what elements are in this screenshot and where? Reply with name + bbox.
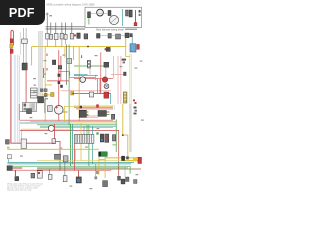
lamp yellow Y2 <box>71 92 74 96</box>
connector row J4 <box>97 34 101 39</box>
label m3 <box>33 92 36 93</box>
terminal T10 <box>123 61 125 63</box>
ladder rung c <box>31 94 38 96</box>
wire lightblue cross <box>74 105 114 107</box>
solenoid blue S1 <box>130 44 136 52</box>
loom wire c <box>40 31 42 103</box>
wire stub s4 <box>65 39 67 44</box>
connector comb r1 <box>111 114 114 119</box>
tail lamp red <box>138 157 142 163</box>
sidelamp SL1 <box>7 155 11 159</box>
fusebox terminal a <box>24 104 27 107</box>
horn H2 red <box>102 77 108 83</box>
terminal red Ta <box>133 99 135 101</box>
stub teal comb2 <box>92 126 94 134</box>
wire red down b <box>73 143 75 171</box>
fuse F5 <box>64 34 67 39</box>
wire dark rear drop <box>95 164 97 176</box>
wire teal cross low <box>74 107 113 109</box>
ignition switch S5 <box>79 110 86 117</box>
horn H1 <box>80 77 86 83</box>
wire teal center h <box>59 71 70 73</box>
relay K3 <box>104 62 109 67</box>
column connector d <box>44 89 47 92</box>
flasher U1 contact b <box>88 64 91 67</box>
tick yellow bl <box>7 147 9 149</box>
terminal T9 <box>122 59 126 61</box>
flasher unit green <box>99 152 108 157</box>
label m4 <box>44 60 47 61</box>
wire grey pale right <box>19 56 21 143</box>
comb bl <box>31 173 35 178</box>
exhaust sensor mark <box>96 171 99 174</box>
ladder rung a <box>31 89 38 91</box>
label m8 <box>120 66 123 67</box>
wire teal inset <box>122 9 124 26</box>
wire teal rear drop <box>92 144 94 164</box>
stub teal comb <box>83 126 85 134</box>
wire teal stub blue <box>131 35 133 44</box>
motor X mark a <box>105 85 108 88</box>
wire yellow center long <box>78 47 80 121</box>
wire teal drop <box>110 93 112 104</box>
connector J2 <box>126 10 129 16</box>
wire red center a <box>58 50 60 121</box>
connector C4 <box>89 92 93 97</box>
wire dark center v <box>66 45 68 86</box>
stabilizer rung a <box>124 94 127 96</box>
fuse F4 <box>60 33 64 39</box>
wire pink r h <box>111 74 126 76</box>
inset box frame <box>85 7 142 27</box>
wire red inset <box>135 10 137 26</box>
connector row J6 <box>116 34 121 39</box>
wire teal stub v <box>95 75 97 80</box>
lamp cluster bl <box>37 171 42 178</box>
wire red stub box <box>19 111 26 113</box>
loom wire d <box>41 31 43 103</box>
ignition coil C <box>88 12 91 18</box>
relay K1 <box>77 33 80 38</box>
connector left J8 <box>22 39 28 43</box>
label m13 <box>97 128 100 129</box>
connector C2 <box>52 60 55 65</box>
wire red long h <box>74 78 113 80</box>
wire yellow fl a <box>98 157 100 175</box>
wire yellow mid h <box>45 84 52 86</box>
wire grey rear v <box>124 167 126 177</box>
rear cluster a <box>118 176 121 180</box>
wire dark mid h <box>74 75 98 77</box>
control box CB1 <box>27 109 32 114</box>
comb teeth <box>76 135 91 144</box>
wire drop d2 <box>49 169 51 174</box>
lamp yellow Y1 <box>51 93 54 97</box>
wire yellow mid v <box>44 47 46 121</box>
distributor D1 <box>97 9 104 16</box>
dynamo red tick b <box>56 106 58 109</box>
flasher cap <box>99 152 101 157</box>
fusebox hatch <box>30 103 35 111</box>
junction blob J9 <box>58 74 61 77</box>
wire yellow right v <box>122 104 124 135</box>
tick red bl2 <box>38 172 40 174</box>
wire band red 2 <box>20 129 119 131</box>
wire darkgreen rear <box>37 167 128 169</box>
lamp small rear <box>95 176 98 179</box>
wire green loop h2 <box>112 144 116 146</box>
regulator R1 <box>48 106 53 112</box>
wire red stub ra <box>97 79 99 94</box>
wire grey link row <box>100 35 125 37</box>
starter red S2 <box>137 44 140 49</box>
wire band yellow 2 <box>22 128 74 130</box>
wire green mid b <box>69 76 95 78</box>
wire red band leg <box>18 104 20 120</box>
connector C3 <box>58 66 62 69</box>
label m19 <box>110 169 113 170</box>
node yellow junction <box>122 134 124 136</box>
wire yellow wrap <box>126 47 130 57</box>
switch S4 <box>67 59 72 64</box>
inset link wire <box>91 13 108 15</box>
top bus wire B <box>46 28 86 30</box>
ladder rung b <box>31 92 38 94</box>
wire green loop h1 <box>112 136 116 138</box>
wire yellow mid leg <box>64 106 66 121</box>
connector C5 <box>52 139 56 144</box>
label m20 <box>136 174 139 175</box>
lamp cluster red a <box>10 39 13 43</box>
wire pink h <box>61 90 111 92</box>
wire red short h <box>47 80 69 82</box>
wire drop f2 <box>50 23 52 37</box>
reverse lamp RV <box>76 177 81 183</box>
connector J3 <box>129 10 132 17</box>
wire red lower v <box>54 124 56 141</box>
wire lightblue band a <box>13 55 15 143</box>
wire drop f6 <box>71 23 73 36</box>
wire pink r1 <box>112 56 114 78</box>
top bus wire A <box>46 26 86 28</box>
rear yellow joint <box>133 157 137 161</box>
junction blob J10 <box>58 81 61 84</box>
lamp cluster yellow <box>10 44 13 48</box>
S6 stub red <box>106 111 109 113</box>
wire band yellow 1 <box>30 121 116 123</box>
wire grey left pair a <box>23 28 25 63</box>
rear dark connector <box>121 156 125 161</box>
motor X mark b <box>105 85 108 88</box>
wire drop f3 <box>55 23 57 36</box>
wire lightblue band b <box>15 55 17 143</box>
instrument connector comb <box>74 135 94 144</box>
connector dark above blue <box>130 34 133 37</box>
rear cluster c <box>126 177 130 182</box>
wire teal rear b <box>7 163 131 165</box>
wire teal rear a <box>7 161 134 163</box>
clock G2 <box>48 125 54 131</box>
wire drop f1 <box>46 13 48 36</box>
wiper motor W1 <box>100 134 104 142</box>
column connector c <box>40 89 43 92</box>
wire yellow fl b <box>104 157 106 178</box>
wire yellow short h <box>42 94 52 96</box>
label m5 <box>44 74 47 75</box>
comp below yellow red tick <box>105 48 107 50</box>
wire dark ign drop <box>44 99 46 113</box>
stabilizer rung b <box>124 97 127 99</box>
wire red stub rb <box>99 79 101 94</box>
column connector f <box>44 94 47 97</box>
wire green rear drop <box>88 144 90 167</box>
wire yellow cross low <box>64 105 113 107</box>
red tick mid b <box>46 68 48 71</box>
wire grey right v2 <box>129 104 131 152</box>
terminal red Tb <box>135 102 137 104</box>
wire lightblue bend <box>113 106 115 111</box>
stub green comb <box>86 125 88 135</box>
inset caption right dash <box>125 29 137 30</box>
wire red lower bend <box>55 141 61 170</box>
ignition block label <box>45 98 48 99</box>
tick green dash <box>96 132 98 134</box>
connector C6 <box>21 139 26 148</box>
wire red rear <box>12 169 111 171</box>
terminal T8 <box>139 14 141 16</box>
wire yellow right step <box>123 135 128 158</box>
wire yellow left leg <box>21 129 23 143</box>
wire red right drop <box>118 130 120 176</box>
wire yellow bottom h <box>7 148 99 150</box>
svg-text:Main harness wiring detail: Main harness wiring detail <box>96 29 124 32</box>
wire grey stub relay <box>105 67 107 78</box>
fusebox FB1 <box>23 103 37 112</box>
rear cluster b <box>121 179 125 184</box>
wire drop d1 <box>64 162 66 176</box>
label m2 <box>34 85 37 86</box>
ignition switch block <box>38 97 44 103</box>
wire red mid-left <box>25 69 27 103</box>
label m9 <box>135 68 138 69</box>
wire red bottomleft h <box>11 142 55 144</box>
wire green coil <box>88 18 90 25</box>
wire paleyellow rear <box>37 160 134 162</box>
wire green center v <box>68 45 70 126</box>
junction comp cross <box>79 106 82 109</box>
wire green rear <box>7 165 130 167</box>
fuse F3 <box>54 33 58 39</box>
label t2 <box>49 15 52 16</box>
node N1 <box>74 34 76 36</box>
switch left S3 <box>22 63 27 70</box>
headlamp HL1 <box>7 166 12 171</box>
stabilizer rung c <box>124 100 127 102</box>
stub green comb2 <box>88 125 90 135</box>
W tick red <box>105 137 108 139</box>
S5 tick teal <box>87 114 89 116</box>
gauge G1 <box>109 15 118 24</box>
wire red dynamo right <box>63 111 68 113</box>
rear yellow wire upper <box>105 157 138 159</box>
wire red overlay <box>12 167 22 169</box>
connector row J7 <box>125 33 129 38</box>
terminal T7 <box>139 10 141 13</box>
wire band green 1 <box>37 124 116 126</box>
lamp rear RL1 <box>63 176 67 182</box>
label m16 <box>70 186 73 187</box>
wire stub s2 <box>55 40 57 47</box>
rear yellow wire lower <box>122 160 138 162</box>
wire green lower v <box>70 124 72 166</box>
fusebox terminal b <box>24 108 27 111</box>
dynamo red tick a <box>55 106 58 108</box>
sender SU <box>63 156 68 162</box>
dark mark x82 <box>81 55 83 58</box>
brake switch red <box>104 92 109 98</box>
indicator red IL <box>14 170 16 176</box>
wire green right loop v <box>115 119 117 152</box>
label m18 <box>20 156 23 157</box>
wire drop f5 <box>65 23 67 37</box>
wire red under switch <box>86 115 98 117</box>
label m6 <box>95 55 98 56</box>
wire grey stub flasher <box>89 67 91 75</box>
wire brown rear <box>37 168 141 170</box>
wire pink mid v <box>100 52 102 93</box>
fuse F1 <box>46 33 49 39</box>
wire yellow drop right <box>125 38 127 47</box>
gauge G1 needle <box>111 18 117 23</box>
label m7 <box>63 55 66 56</box>
wire teal sidelamp <box>8 159 10 162</box>
wire yellow down a <box>74 149 76 160</box>
label m14 <box>60 148 63 149</box>
relay K2 <box>84 34 88 39</box>
wire yellow main horizontal <box>32 46 126 48</box>
flasher U1 contact a <box>88 61 91 64</box>
wire teal lower v <box>71 124 73 164</box>
wire band teal 1 <box>20 122 70 124</box>
wire dark bus h <box>72 93 111 95</box>
node yellow top dot <box>87 46 89 48</box>
wire red left loop <box>11 30 14 45</box>
wire teal mid h <box>74 74 88 76</box>
loom wire e <box>42 31 44 103</box>
wire grey narrow left <box>19 32 21 55</box>
svg-text:Reproduced for reference only: Reproduced for reference only <box>7 189 31 191</box>
wire dark dash loom <box>43 68 45 78</box>
column ladder block <box>31 88 38 98</box>
junction blob J11 <box>60 85 63 88</box>
sensor P1 <box>124 72 127 76</box>
terminal mark Td <box>135 110 137 112</box>
wire stub s1 <box>46 39 48 46</box>
label m10 <box>141 120 144 121</box>
terminal marks bl <box>5 140 9 145</box>
fuel pump FP <box>55 154 61 159</box>
wiper motor W2 <box>105 134 109 142</box>
lamp cluster red b <box>10 49 13 53</box>
comp below yellow <box>106 47 110 51</box>
lamp rear RL3 <box>103 181 108 187</box>
light switch S6 <box>98 111 106 117</box>
wire yellow center drop <box>64 47 66 58</box>
loom wire a <box>37 31 39 103</box>
terminal mark Tc <box>134 107 137 109</box>
svg-text:PDF: PDF <box>9 6 35 20</box>
wire red cross low <box>76 108 113 110</box>
wire grey right <box>131 54 133 152</box>
lamp rear RL2 <box>48 174 52 179</box>
wire red center b <box>60 56 62 81</box>
label m11 <box>30 117 33 118</box>
RV tick blue <box>77 179 80 182</box>
wire band red 1 <box>20 119 113 121</box>
W tick blue <box>101 139 103 141</box>
motor X circle <box>104 84 109 89</box>
red tick mid a <box>46 54 48 57</box>
wire yellow rear drop <box>80 144 82 161</box>
lamp IL2 <box>15 177 19 181</box>
wire dark center v2 <box>72 47 74 60</box>
wire band grey <box>40 127 113 129</box>
wire red left main <box>10 32 12 144</box>
label t1 <box>46 13 49 14</box>
label m15 <box>85 147 88 148</box>
wire stub s3 <box>61 39 63 46</box>
loom wire b <box>38 31 40 103</box>
label m12 <box>45 133 48 134</box>
wire pink r2 <box>117 56 119 104</box>
wire grey under switch <box>80 116 98 118</box>
wire green mid a <box>74 65 106 67</box>
wire drop f4 <box>61 23 63 36</box>
connector comb r2 <box>112 135 115 141</box>
lamp red inset <box>134 23 137 26</box>
S6 stub green <box>106 114 109 116</box>
svg-text:MGB complete wiring diagram 19: MGB complete wiring diagram 1976-1980 <box>47 2 95 6</box>
lamp red small mid <box>96 104 99 107</box>
wire teal center v <box>69 72 71 76</box>
wire lightblue band d <box>18 55 20 143</box>
wire yellow left drop <box>31 47 33 66</box>
wire grey left pair b <box>25 28 27 63</box>
wire band yellow 1b <box>70 122 116 124</box>
rear cluster d <box>134 180 138 184</box>
PDF badge <box>0 0 45 25</box>
stabilizer V1 <box>124 92 127 103</box>
label m9b <box>140 61 143 62</box>
stub yellow comb <box>80 123 82 135</box>
flasher U1 body <box>87 60 90 68</box>
S5 tick yellow <box>87 111 89 113</box>
terminal mark Te <box>134 113 137 115</box>
wire lightblue band c <box>16 55 18 143</box>
connector J1 <box>108 10 111 15</box>
connector row J5 <box>108 34 111 39</box>
wire red rev <box>78 171 80 177</box>
wire yellow fl h <box>99 159 105 161</box>
wire green rear bend <box>129 166 131 174</box>
fuse F2 <box>49 34 52 39</box>
fuse F6 <box>70 33 74 39</box>
dynamo M1 <box>55 106 64 115</box>
wire pink r3 <box>120 56 122 104</box>
label m1 <box>33 78 36 79</box>
wire band teal 2 <box>40 125 116 127</box>
rear dark connector b <box>126 156 129 159</box>
